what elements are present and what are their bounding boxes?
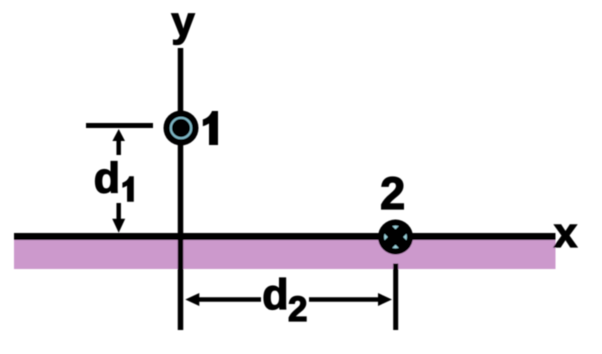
svg-text:2: 2 xyxy=(380,168,405,219)
label 1 xyxy=(203,111,218,145)
wire 1 symbol (current out of page) xyxy=(164,111,199,146)
d2 extension line below wire 2 xyxy=(393,264,398,331)
x-axis xyxy=(14,233,556,240)
pink strip along x-axis xyxy=(14,240,556,269)
d1 down arrow xyxy=(112,203,125,233)
svg-text:d: d xyxy=(94,154,120,202)
svg-text:x: x xyxy=(554,209,578,256)
svg-text:d: d xyxy=(262,271,288,319)
svg-text:2: 2 xyxy=(288,290,307,329)
d1 up arrow xyxy=(112,129,125,155)
svg-text:y: y xyxy=(171,0,195,45)
d2 left arrow xyxy=(185,293,261,306)
wire 2 symbol (current into page) xyxy=(378,220,413,255)
tick mark at wire 1 height xyxy=(86,123,153,128)
y-axis xyxy=(178,48,184,330)
d2 right arrow xyxy=(309,293,392,306)
